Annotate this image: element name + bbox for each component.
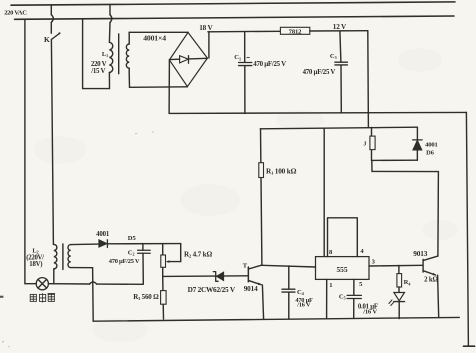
svg-text:4: 4 [360,248,364,255]
svg-text:8: 8 [329,249,333,256]
svg-text:4001×4: 4001×4 [143,34,166,43]
svg-text:L2: L2 [32,247,38,254]
svg-text:C1: C1 [234,54,241,61]
svg-text:/16 V: /16 V [362,309,377,316]
svg-text:470 µF/25 V: 470 µF/25 V [253,61,286,68]
svg-text:18V): 18V) [29,261,42,268]
svg-text:L1: L1 [102,51,108,58]
svg-text:220 VAC: 220 VAC [4,10,27,17]
svg-text:C3: C3 [330,53,337,60]
svg-text:2 kΩ: 2 kΩ [424,277,438,284]
svg-text:9014: 9014 [244,285,258,293]
svg-text:18 V: 18 V [199,24,213,32]
svg-text:4001: 4001 [425,141,438,148]
svg-text:1: 1 [329,282,332,289]
svg-text:9013: 9013 [413,249,428,258]
svg-text:R4: R4 [404,279,411,286]
svg-text:555: 555 [336,265,347,274]
svg-text:12 V: 12 V [333,23,347,31]
svg-text:/15 V: /15 V [90,68,105,75]
svg-text:C2: C2 [128,249,135,256]
svg-text:R3 560 Ω: R3 560 Ω [133,293,159,301]
svg-text:J: J [363,142,366,148]
svg-text:D6: D6 [426,149,435,156]
svg-text:470 µF/25 V: 470 µF/25 V [303,69,336,76]
svg-text:C5: C5 [339,294,346,301]
svg-text:T1: T1 [243,263,249,270]
svg-text:R2 4.7 kΩ: R2 4.7 kΩ [184,250,212,258]
svg-text:5: 5 [359,281,363,288]
svg-text:220 V: 220 V [91,61,107,68]
svg-text:R1 100 kΩ: R1 100 kΩ [266,166,297,175]
svg-text:3: 3 [372,259,376,266]
svg-text:470 µF/25 V: 470 µF/25 V [109,258,140,265]
svg-text:D7 2CW62/25 V: D7 2CW62/25 V [188,285,236,294]
svg-text:7812: 7812 [289,28,303,35]
svg-text:4001: 4001 [96,231,110,238]
svg-text:K: K [44,35,50,44]
svg-text:D5: D5 [128,235,137,242]
svg-text:C4: C4 [297,289,304,296]
svg-text:/16 V: /16 V [296,302,311,309]
